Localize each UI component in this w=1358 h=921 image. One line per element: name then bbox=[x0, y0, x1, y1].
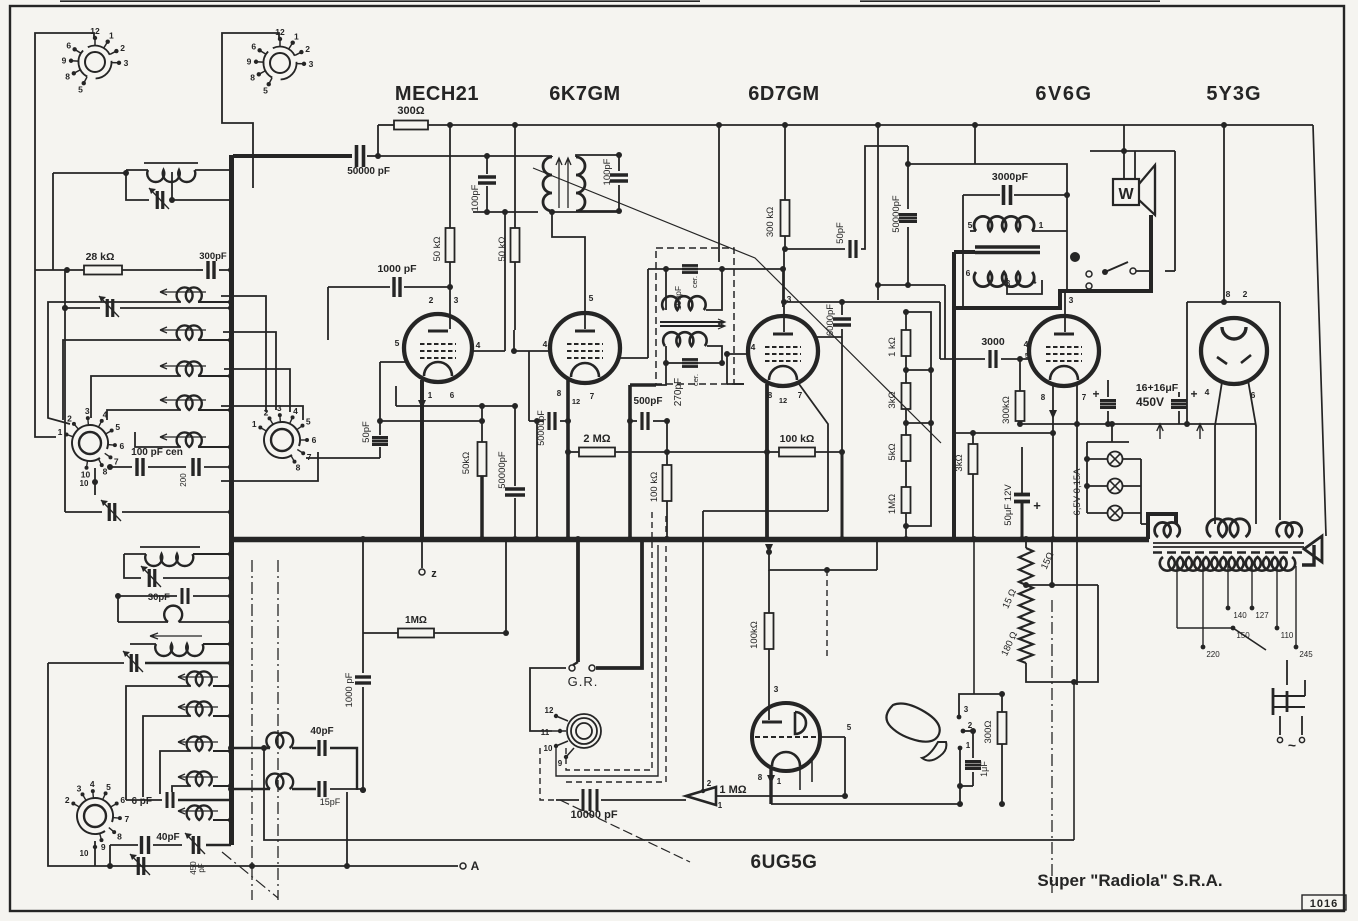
svg-text:3: 3 bbox=[85, 406, 90, 416]
wire 6D7 grid2 bbox=[783, 249, 785, 302]
svg-text:12: 12 bbox=[779, 396, 787, 405]
svg-text:6: 6 bbox=[312, 435, 317, 445]
svg-text:A: A bbox=[471, 859, 480, 873]
bus thick vertical bbox=[229, 155, 234, 540]
IF1 coupling arrows bbox=[556, 158, 562, 208]
wire bracket E bbox=[107, 410, 158, 420]
svg-text:1: 1 bbox=[58, 427, 63, 437]
svg-text:6UG5G: 6UG5G bbox=[751, 852, 818, 873]
wire IF2 top feed bbox=[718, 125, 720, 248]
wire y302 bbox=[784, 301, 940, 303]
capacitor 3000 coupling bbox=[988, 350, 991, 368]
PT arrow bbox=[1304, 536, 1322, 562]
wire left vert 65 bbox=[64, 270, 66, 512]
rotary switch S3 bbox=[79, 432, 101, 454]
wire g-bracket4 bbox=[172, 786, 191, 792]
svg-text:5: 5 bbox=[306, 417, 311, 427]
svg-text:1000 pF: 1000 pF bbox=[377, 263, 417, 275]
PT taps bbox=[1176, 566, 1178, 628]
coil Lg1 bbox=[178, 704, 218, 710]
svg-text:100 kΩ: 100 kΩ bbox=[780, 433, 815, 445]
capacitor 50000pF b bbox=[505, 487, 525, 490]
svg-text:1: 1 bbox=[109, 31, 114, 41]
mains plug bbox=[1273, 695, 1305, 697]
svg-text:1: 1 bbox=[428, 391, 433, 400]
wire zig bottom bbox=[1026, 585, 1098, 682]
resistor 100k b bbox=[779, 448, 815, 457]
IF1 secondary winding bbox=[576, 157, 585, 211]
coil L10 bbox=[140, 546, 200, 548]
svg-text:12: 12 bbox=[545, 706, 554, 715]
svg-text:6: 6 bbox=[66, 41, 71, 51]
wire 6V6 top pin3 bbox=[1064, 291, 1066, 332]
svg-text:1: 1 bbox=[252, 419, 257, 429]
coil L2 bbox=[177, 287, 202, 302]
wire bracket B bbox=[48, 302, 158, 424]
wire S4 bracket3 bbox=[224, 369, 290, 412]
wire 6V6 cathode bbox=[1052, 383, 1054, 433]
svg-text:9: 9 bbox=[558, 759, 563, 768]
wire tube1 plate bbox=[395, 386, 397, 406]
capacitor 3000pF OT bbox=[1002, 185, 1006, 205]
svg-text:110: 110 bbox=[1281, 631, 1294, 640]
svg-text:8: 8 bbox=[758, 773, 763, 782]
svg-text:6000pF: 6000pF bbox=[825, 304, 836, 336]
resistor 100k a bbox=[663, 465, 672, 501]
svg-text:100 kΩ: 100 kΩ bbox=[649, 472, 660, 502]
resistor 50k a bbox=[446, 228, 455, 262]
wire filter caps arrows bbox=[1157, 424, 1163, 439]
coil L5 bbox=[177, 395, 202, 410]
coil L12 bbox=[150, 633, 202, 639]
svg-text:2 MΩ: 2 MΩ bbox=[583, 433, 610, 445]
svg-text:10: 10 bbox=[80, 479, 89, 488]
svg-text:4: 4 bbox=[1032, 276, 1037, 286]
rotary switch S6 bbox=[84, 805, 106, 827]
svg-text:8: 8 bbox=[117, 832, 122, 842]
svg-text:8: 8 bbox=[103, 466, 108, 476]
wire g-bracket1 bbox=[126, 686, 191, 800]
svg-text:3: 3 bbox=[277, 403, 282, 413]
PT fil winding 2 bbox=[1207, 519, 1250, 537]
wire grid drop bbox=[449, 125, 451, 229]
wire bracket C bbox=[63, 340, 158, 420]
resistor 1M bbox=[902, 487, 911, 513]
resistor 50k b bbox=[511, 228, 520, 262]
diagonal gang link bbox=[533, 168, 941, 443]
wire 6UG5 pin bottom bbox=[799, 766, 801, 790]
resistor 300k a bbox=[781, 200, 790, 236]
coil Lg3 bbox=[178, 774, 218, 780]
wire 6UG5 plate top bbox=[769, 552, 877, 570]
capacitor 6pF bbox=[166, 792, 169, 808]
svg-text:28 kΩ: 28 kΩ bbox=[86, 251, 115, 263]
svg-text:1016: 1016 bbox=[1310, 898, 1338, 910]
svg-text:10000 pF: 10000 pF bbox=[570, 809, 617, 821]
wire 6D7 grid top bbox=[782, 273, 784, 307]
OT box bbox=[975, 164, 1067, 291]
svg-text:50 kΩ: 50 kΩ bbox=[432, 236, 443, 261]
S6 pin10 bbox=[94, 841, 96, 852]
wire 6UG5 g2 dashed bbox=[826, 570, 828, 660]
svg-text:MECH21: MECH21 bbox=[395, 83, 479, 105]
capacitor 1uF bbox=[965, 760, 981, 763]
svg-text:3: 3 bbox=[774, 684, 779, 694]
svg-text:5: 5 bbox=[78, 84, 83, 94]
rotary switch S4 bbox=[271, 429, 293, 451]
svg-text:pF: pF bbox=[197, 863, 206, 872]
wire S4 bracket1 bbox=[221, 296, 266, 412]
speaker cone bbox=[1139, 165, 1155, 215]
svg-text:10: 10 bbox=[544, 744, 553, 753]
wire IF1 bottom bbox=[552, 211, 619, 213]
lamp 1 bbox=[1108, 452, 1123, 467]
svg-text:7: 7 bbox=[307, 452, 312, 462]
capacitor 100pF cen bbox=[135, 458, 138, 476]
capacitor 270pF cer bbox=[682, 358, 698, 361]
svg-text:+: + bbox=[1033, 498, 1041, 513]
svg-text:2: 2 bbox=[1243, 289, 1248, 299]
coil L4 bbox=[177, 361, 202, 376]
coil Lg4 bbox=[178, 808, 218, 814]
svg-text:300Ω: 300Ω bbox=[983, 721, 994, 744]
capacitor 450pF bbox=[192, 836, 195, 854]
resistor 28k bbox=[84, 266, 122, 275]
svg-text:7: 7 bbox=[1082, 393, 1087, 402]
OT secondary bbox=[974, 272, 1034, 287]
svg-text:6V6G: 6V6G bbox=[1035, 83, 1092, 105]
wire 363 vert bbox=[362, 539, 364, 673]
svg-text:2: 2 bbox=[67, 413, 72, 423]
wire bottom 840 bbox=[264, 748, 1074, 840]
IF2 core bbox=[660, 321, 724, 323]
svg-text:4: 4 bbox=[1205, 387, 1210, 397]
svg-text:300Ω: 300Ω bbox=[397, 105, 424, 117]
svg-text:100pF: 100pF bbox=[470, 184, 481, 211]
terminal GR left bbox=[569, 665, 575, 671]
IF2 primary bbox=[662, 296, 706, 310]
pickup wires bbox=[959, 694, 1002, 717]
capacitor 6000pF bbox=[833, 317, 851, 320]
svg-text:500pF: 500pF bbox=[634, 396, 663, 407]
wire S4 out bbox=[306, 457, 380, 459]
svg-text:100pF: 100pF bbox=[602, 158, 613, 185]
wire GR thick drop bbox=[576, 539, 580, 662]
IF2 shield box dashed bbox=[656, 248, 734, 384]
svg-text:9: 9 bbox=[101, 842, 106, 852]
svg-text:8: 8 bbox=[1226, 289, 1231, 299]
capacitor 16uF a bbox=[1100, 399, 1116, 402]
PT fil winding 1 bbox=[1155, 522, 1180, 537]
svg-text:7: 7 bbox=[590, 392, 595, 401]
wire IF2 sec to grid bbox=[734, 383, 744, 385]
lamp 2 bbox=[1108, 479, 1123, 494]
svg-text:3000: 3000 bbox=[981, 336, 1005, 348]
svg-text:100kΩ: 100kΩ bbox=[749, 621, 760, 649]
wire bracket F bbox=[135, 432, 158, 447]
resistor 50k c bbox=[478, 442, 487, 476]
svg-text:1μF: 1μF bbox=[979, 761, 989, 777]
trimmer C-S3 bbox=[108, 503, 111, 521]
svg-text:Super "Radiola" S.R.A.: Super "Radiola" S.R.A. bbox=[1037, 871, 1222, 890]
resistor 100k c bbox=[765, 613, 774, 649]
wire bracket D bbox=[91, 376, 158, 418]
svg-text:3: 3 bbox=[454, 295, 459, 305]
coil Lr1 bbox=[266, 733, 293, 748]
OT primary bbox=[974, 216, 1034, 231]
PT arrow line bbox=[1313, 125, 1326, 536]
terminal Z bbox=[421, 539, 423, 568]
capacitor 30pF bbox=[181, 588, 184, 604]
S5 pins bbox=[556, 716, 568, 721]
wire IF1 top bbox=[488, 155, 552, 157]
wire 6UG5 grid in bbox=[820, 736, 845, 738]
svg-text:5Y3G: 5Y3G bbox=[1206, 83, 1261, 105]
PT core bbox=[1153, 542, 1304, 544]
svg-text:1: 1 bbox=[294, 32, 299, 42]
svg-text:3: 3 bbox=[309, 59, 314, 69]
svg-text:1 MΩ: 1 MΩ bbox=[719, 784, 746, 796]
coil Lg0 bbox=[178, 674, 218, 680]
wire 6D7 pin4 bbox=[727, 353, 748, 355]
svg-text:~: ~ bbox=[1288, 737, 1296, 753]
wire 6K7 plate bbox=[618, 357, 648, 359]
svg-text:140: 140 bbox=[1233, 611, 1247, 620]
svg-text:5kΩ: 5kΩ bbox=[887, 443, 898, 460]
wire g-bracket3 bbox=[160, 751, 191, 794]
wire 1053 down bbox=[1052, 433, 1054, 539]
rotary switch S1 bbox=[85, 52, 105, 72]
coil Lr2 bbox=[266, 774, 293, 789]
PT fil winding 3 bbox=[1277, 522, 1302, 537]
svg-text:12: 12 bbox=[572, 397, 580, 406]
svg-text:6: 6 bbox=[120, 795, 125, 805]
svg-text:1 kΩ: 1 kΩ bbox=[887, 337, 898, 357]
tube 6UG5G envelope bbox=[752, 703, 820, 771]
svg-text:3: 3 bbox=[124, 58, 129, 68]
wire S4 bracket4 bbox=[221, 406, 303, 420]
svg-text:50pF: 50pF bbox=[835, 222, 846, 244]
svg-text:1: 1 bbox=[777, 777, 782, 786]
resistor 1k bbox=[902, 330, 911, 356]
wire 6D7 cathode bbox=[765, 384, 769, 539]
svg-text:6: 6 bbox=[966, 268, 971, 278]
svg-text:+: + bbox=[1092, 387, 1099, 401]
wire thick 567 bbox=[565, 536, 571, 542]
wire tube1 cathode bbox=[420, 380, 424, 539]
resistor 15ohm a bbox=[1019, 548, 1033, 585]
resistor 1M b bbox=[398, 629, 434, 638]
tube 6D7GM envelope bbox=[748, 316, 818, 386]
svg-text:7: 7 bbox=[125, 814, 130, 824]
IF1 primary winding bbox=[543, 157, 552, 211]
svg-text:11: 11 bbox=[541, 728, 550, 737]
svg-text:5: 5 bbox=[395, 338, 400, 348]
pilot lamp box bbox=[1087, 441, 1129, 443]
svg-text:50pF: 50pF bbox=[361, 421, 372, 443]
voice coil dot bbox=[1070, 252, 1080, 262]
trimmer C-L1 bbox=[156, 191, 159, 209]
capacitor 50pF bbox=[372, 436, 388, 439]
svg-text:6D7GM: 6D7GM bbox=[748, 83, 819, 105]
wire 5Y3 plates top bbox=[1187, 301, 1280, 303]
potentiometer 1M bbox=[686, 787, 716, 805]
wire 433 row bbox=[956, 432, 1053, 434]
capacitor 1000pF b bbox=[355, 675, 371, 678]
resistor 300ohm bbox=[394, 121, 428, 130]
svg-text:6 pF: 6 pF bbox=[131, 796, 152, 807]
bus thick horizontal bbox=[229, 537, 1149, 543]
wire zig top bbox=[1025, 539, 1027, 548]
svg-text:7: 7 bbox=[114, 456, 119, 466]
terminal GR right bbox=[589, 665, 595, 671]
resistor 300ohm b bbox=[998, 712, 1007, 744]
wire 6D7 plate right bbox=[816, 336, 842, 338]
svg-text:300 kΩ: 300 kΩ bbox=[765, 207, 776, 237]
capacitor 500pF a bbox=[640, 412, 643, 430]
capacitor 40pF b bbox=[317, 740, 320, 756]
tube MECH21 envelope bbox=[404, 314, 472, 382]
wire zig taps bbox=[1026, 584, 1098, 586]
svg-text:220: 220 bbox=[1206, 650, 1220, 659]
wire 5Y3 right drop bbox=[1279, 302, 1281, 520]
resistor 3k b bbox=[969, 444, 978, 474]
trimmer C-L10 bbox=[148, 569, 151, 587]
svg-text:cer.: cer. bbox=[690, 276, 699, 288]
svg-text:127: 127 bbox=[1255, 611, 1269, 620]
svg-text:1MΩ: 1MΩ bbox=[405, 615, 427, 626]
svg-text:16+16μF: 16+16μF bbox=[1136, 382, 1179, 394]
svg-text:10: 10 bbox=[80, 849, 89, 858]
lamp 3 bbox=[1108, 506, 1123, 521]
capacitor 100pF mix bbox=[478, 175, 496, 178]
tube 6K7GM envelope bbox=[550, 313, 620, 383]
svg-text:245: 245 bbox=[1299, 650, 1313, 659]
capacitor 50000pF e bbox=[899, 213, 917, 216]
wire GR left feed bbox=[530, 668, 552, 731]
svg-text:4: 4 bbox=[90, 779, 95, 789]
wire left column top bbox=[53, 172, 126, 174]
svg-text:5: 5 bbox=[968, 220, 973, 230]
svg-text:50000pF: 50000pF bbox=[497, 451, 508, 489]
svg-text:2: 2 bbox=[429, 295, 434, 305]
capacitor 1000pF bbox=[392, 277, 395, 297]
svg-text:5: 5 bbox=[847, 723, 852, 732]
wire tube1 pin4 bbox=[472, 350, 505, 352]
wire 6K7 pin4 bbox=[514, 350, 550, 352]
resistor 300k b bbox=[1016, 391, 1025, 421]
svg-text:50000pF: 50000pF bbox=[891, 195, 902, 233]
wire bottom 804 bbox=[771, 803, 961, 805]
rotary switch S5 (phono) bbox=[567, 714, 601, 748]
resistor 3k a bbox=[902, 383, 911, 409]
terminal A bbox=[48, 663, 458, 866]
capacitor 300pF row bbox=[206, 261, 209, 279]
IF2 secondary bbox=[663, 332, 707, 346]
wire pot out bbox=[716, 795, 845, 797]
wire 6V6 grid feed bbox=[940, 358, 985, 360]
capacitor 200pF bbox=[191, 458, 194, 476]
svg-text:8: 8 bbox=[768, 391, 773, 400]
svg-text:5: 5 bbox=[106, 782, 111, 792]
svg-text:4: 4 bbox=[103, 410, 108, 420]
wire S4 bracket2 bbox=[223, 332, 276, 410]
wire IF2 bottom out bbox=[656, 363, 666, 385]
svg-text:15pF: 15pF bbox=[320, 797, 341, 807]
svg-text:270pF: 270pF bbox=[673, 378, 684, 406]
svg-text:7: 7 bbox=[798, 391, 803, 400]
svg-text:5: 5 bbox=[115, 422, 120, 432]
wire 50000pF feed bbox=[233, 154, 352, 158]
capacitor 100pF cer bbox=[682, 264, 698, 267]
switch speaker contacts bbox=[1086, 271, 1092, 277]
wire S3 stub bbox=[94, 468, 96, 495]
PT selector bbox=[1233, 628, 1266, 650]
svg-text:6,5V 0,15A: 6,5V 0,15A bbox=[1072, 468, 1083, 516]
capacitor 50uF bbox=[1014, 493, 1030, 497]
svg-text:40pF: 40pF bbox=[156, 832, 179, 843]
speaker W box bbox=[1113, 179, 1139, 205]
svg-text:G.R.: G.R. bbox=[568, 674, 599, 689]
tube 6V6G envelope bbox=[1029, 316, 1099, 386]
OT core bbox=[975, 245, 1040, 248]
wire speaker top bbox=[1090, 150, 1175, 152]
wire chain bracket bbox=[906, 312, 931, 526]
svg-text:30pF: 30pF bbox=[148, 592, 170, 603]
PT primary winding bbox=[1160, 557, 1295, 571]
svg-text:50 kΩ: 50 kΩ bbox=[497, 236, 508, 261]
svg-text:2: 2 bbox=[65, 795, 70, 805]
capacitor 100pF IF1 bbox=[610, 173, 628, 176]
svg-text:12: 12 bbox=[90, 26, 100, 36]
svg-text:4: 4 bbox=[751, 342, 756, 352]
svg-text:100 pF cen: 100 pF cen bbox=[131, 447, 183, 458]
trimmer C-row bbox=[106, 299, 109, 317]
wire 6K7 cathode bbox=[566, 379, 570, 539]
wire g-bracket2 bbox=[143, 716, 191, 797]
PT tap dots bbox=[1226, 606, 1231, 611]
wire speaker return thick bbox=[954, 215, 1151, 308]
svg-text:300pF: 300pF bbox=[199, 251, 227, 262]
coil L3 bbox=[177, 325, 202, 340]
svg-text:2: 2 bbox=[707, 779, 712, 788]
resistor 5k bbox=[902, 435, 911, 461]
svg-text:1: 1 bbox=[966, 741, 971, 750]
PT left bracket bbox=[1148, 514, 1176, 539]
svg-text:3: 3 bbox=[964, 705, 969, 714]
wire S1 feed bbox=[35, 33, 94, 437]
wire 28k row bbox=[52, 173, 54, 270]
svg-text:40pF: 40pF bbox=[310, 726, 333, 737]
svg-text:6: 6 bbox=[450, 391, 455, 400]
wire tube1 grid-in bbox=[379, 362, 381, 435]
svg-text:6: 6 bbox=[120, 441, 125, 451]
tube 5Y3G envelope bbox=[1201, 318, 1267, 384]
sheet number 1016 bbox=[1302, 895, 1346, 910]
svg-text:6: 6 bbox=[251, 42, 256, 52]
capacitor 50000pF c bbox=[547, 412, 550, 430]
wire tube1 grid caps bbox=[449, 287, 451, 329]
svg-text:9: 9 bbox=[247, 56, 252, 66]
capacitor 16uF b bbox=[1171, 399, 1187, 402]
svg-text:6K7GM: 6K7GM bbox=[549, 83, 620, 105]
wire pickup top bbox=[973, 539, 975, 694]
svg-text:200: 200 bbox=[179, 473, 188, 487]
trimmer C-L12 bbox=[130, 654, 133, 672]
svg-text:4: 4 bbox=[543, 339, 548, 349]
wire 5Y3 filament pins bbox=[1215, 382, 1222, 524]
svg-text:8: 8 bbox=[557, 389, 562, 398]
